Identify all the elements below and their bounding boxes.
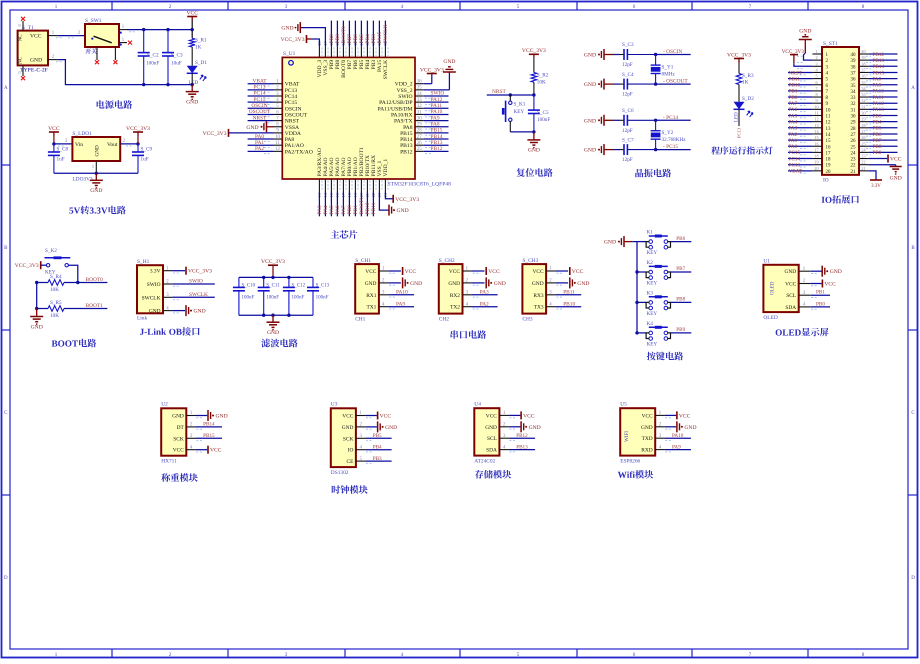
svg-text:U2: U2 xyxy=(161,402,168,408)
svg-text:PB10: PB10 xyxy=(563,301,575,307)
svg-text:PA11: PA11 xyxy=(873,95,885,101)
svg-text:GND: GND xyxy=(342,425,354,431)
svg-text:PB12: PB12 xyxy=(873,52,885,58)
svg-text:S_C5: S_C5 xyxy=(537,110,549,116)
svg-text:S_CH1: S_CH1 xyxy=(355,258,371,264)
svg-text:PB13: PB13 xyxy=(431,140,443,146)
svg-text:CH2: CH2 xyxy=(439,316,449,322)
svg-text:PA3: PA3 xyxy=(480,290,489,296)
svg-text:27: 27 xyxy=(417,135,422,140)
svg-text:11: 11 xyxy=(826,115,831,120)
svg-text:BOOT1: BOOT1 xyxy=(86,303,104,309)
svg-text:RX3: RX3 xyxy=(533,293,543,299)
svg-text:PB9: PB9 xyxy=(873,150,882,156)
svg-text:19: 19 xyxy=(814,160,818,165)
svg-text:GND: GND xyxy=(443,59,455,65)
svg-text:PB1: PB1 xyxy=(816,290,825,296)
svg-text:VCC: VCC xyxy=(824,282,836,288)
svg-text:PB13: PB13 xyxy=(873,58,885,64)
svg-text:25: 25 xyxy=(861,141,865,146)
svg-text:GND: GND xyxy=(890,176,902,182)
svg-text:S_R2: S_R2 xyxy=(537,73,549,79)
svg-text:PB14: PB14 xyxy=(203,422,215,428)
svg-text:36: 36 xyxy=(861,74,865,79)
svg-text:S_CH3: S_CH3 xyxy=(522,258,538,264)
svg-text:OLED: OLED xyxy=(771,281,776,295)
svg-text:VSSA: VSSA xyxy=(285,125,299,131)
svg-text:10K: 10K xyxy=(50,287,59,293)
svg-text:STM32F103C8T6_LQFP48: STM32F103C8T6_LQFP48 xyxy=(388,182,452,188)
svg-text:S_SW1: S_SW1 xyxy=(85,18,102,24)
svg-text:SWIO: SWIO xyxy=(147,282,161,288)
svg-text:VDD_1: VDD_1 xyxy=(383,159,389,177)
svg-text:GND: GND xyxy=(604,240,616,246)
svg-text:S_C3: S_C3 xyxy=(622,42,634,48)
svg-text:VDDA: VDDA xyxy=(285,131,301,137)
svg-text:HX711: HX711 xyxy=(161,459,177,465)
svg-text:KEY: KEY xyxy=(514,109,525,115)
svg-text:GND: GND xyxy=(194,309,206,315)
svg-text:1K: 1K xyxy=(742,80,749,86)
svg-text:A: A xyxy=(4,86,8,91)
svg-text:GND: GND xyxy=(785,269,797,275)
svg-text:SCK: SCK xyxy=(343,436,354,442)
svg-text:36: 36 xyxy=(417,80,422,85)
svg-text:- PC14: - PC14 xyxy=(663,115,678,121)
svg-text:26: 26 xyxy=(417,141,422,146)
svg-text:33: 33 xyxy=(417,98,422,103)
svg-text:NRST: NRST xyxy=(789,70,803,76)
svg-text:PA8: PA8 xyxy=(431,121,440,127)
svg-text:PB5: PB5 xyxy=(373,433,382,439)
svg-text:PB8: PB8 xyxy=(873,144,882,150)
svg-text:WIFI: WIFI xyxy=(625,431,630,442)
svg-text:S_C2: S_C2 xyxy=(147,53,159,59)
svg-text:S_CH2: S_CH2 xyxy=(439,258,455,264)
svg-text:29: 29 xyxy=(417,123,422,128)
svg-text:18: 18 xyxy=(814,154,818,159)
svg-text:13: 13 xyxy=(826,127,832,132)
svg-text:12: 12 xyxy=(814,117,818,122)
svg-text:PB15: PB15 xyxy=(873,70,885,76)
svg-text:S_C8: S_C8 xyxy=(57,147,69,153)
svg-text:Vin: Vin xyxy=(75,142,83,148)
svg-text:12: 12 xyxy=(275,147,280,152)
svg-text:RX1: RX1 xyxy=(366,293,376,299)
svg-text:VCC: VCC xyxy=(365,269,376,275)
svg-text:PB12: PB12 xyxy=(431,146,443,152)
svg-text:15: 15 xyxy=(814,135,818,140)
svg-text:D: D xyxy=(911,576,915,581)
svg-text:S_C11: S_C11 xyxy=(266,284,280,289)
svg-text:VCC: VCC xyxy=(486,413,497,419)
svg-text:SDA: SDA xyxy=(785,305,796,311)
svg-text:VCC: VCC xyxy=(48,126,60,132)
svg-text:PA4: PA4 xyxy=(789,119,798,125)
svg-text:PA7: PA7 xyxy=(789,101,798,107)
svg-text:PB5: PB5 xyxy=(873,126,882,132)
svg-text:SDA: SDA xyxy=(486,448,497,454)
svg-text:12pF: 12pF xyxy=(622,62,633,68)
svg-text:K4: K4 xyxy=(647,321,654,327)
svg-text:GND: GND xyxy=(216,414,228,420)
svg-text:PB14: PB14 xyxy=(431,134,443,140)
svg-text:PB6: PB6 xyxy=(676,236,685,242)
svg-text:PA10: PA10 xyxy=(672,433,684,439)
svg-text:GND: GND xyxy=(31,324,43,330)
svg-text:GND: GND xyxy=(830,269,842,275)
svg-text:PB12: PB12 xyxy=(400,149,413,155)
svg-text:VCC_3V3: VCC_3V3 xyxy=(15,263,39,269)
svg-text:PA8: PA8 xyxy=(285,137,295,143)
svg-text:6: 6 xyxy=(815,80,817,85)
svg-text:PC13: PC13 xyxy=(254,85,266,91)
svg-text:U5: U5 xyxy=(620,402,627,408)
svg-text:CE: CE xyxy=(347,459,355,465)
svg-text:PB7: PB7 xyxy=(873,138,882,144)
svg-text:3.3V: 3.3V xyxy=(150,269,161,275)
svg-text:PA8: PA8 xyxy=(873,76,882,82)
svg-text:31: 31 xyxy=(417,110,422,115)
svg-text:31: 31 xyxy=(851,108,857,113)
svg-text:PB13: PB13 xyxy=(516,444,528,450)
svg-text:GND: GND xyxy=(410,281,422,287)
svg-text:AT24C02: AT24C02 xyxy=(474,459,495,465)
svg-text:PC13: PC13 xyxy=(789,163,801,169)
svg-text:PA5: PA5 xyxy=(789,113,798,119)
svg-text:12pF: 12pF xyxy=(622,128,633,134)
svg-text:30: 30 xyxy=(417,116,422,121)
svg-text:DS1302: DS1302 xyxy=(331,470,349,476)
svg-text:PB9: PB9 xyxy=(676,327,685,333)
svg-text:25: 25 xyxy=(851,145,857,150)
svg-text:S_ST1: S_ST1 xyxy=(823,41,838,47)
svg-text:PB11: PB11 xyxy=(563,290,575,296)
svg-text:20: 20 xyxy=(814,166,818,171)
svg-text:22: 22 xyxy=(851,164,857,169)
svg-text:39: 39 xyxy=(861,55,865,60)
svg-text:7: 7 xyxy=(815,86,817,91)
svg-text:GND: GND xyxy=(90,188,102,194)
svg-text:PB0: PB0 xyxy=(816,301,825,307)
svg-text:PB3: PB3 xyxy=(373,456,382,462)
svg-text:S_R4: S_R4 xyxy=(50,274,62,280)
svg-text:PA9/TX: PA9/TX xyxy=(394,119,412,125)
svg-text:PA9: PA9 xyxy=(396,301,405,307)
svg-text:NRST: NRST xyxy=(492,89,506,95)
svg-text:GND: GND xyxy=(529,425,541,431)
svg-text:VCC_3V3: VCC_3V3 xyxy=(188,269,212,275)
svg-text:1uF: 1uF xyxy=(141,157,149,163)
svg-text:28: 28 xyxy=(861,123,865,128)
svg-text:S_D2: S_D2 xyxy=(742,96,754,102)
svg-text:GND: GND xyxy=(246,125,258,131)
svg-text:VCC: VCC xyxy=(173,448,184,454)
svg-text:U3: U3 xyxy=(331,402,338,408)
svg-text:PA10: PA10 xyxy=(431,109,443,115)
svg-text:TX3: TX3 xyxy=(534,305,544,311)
svg-text:GND: GND xyxy=(584,82,596,88)
svg-text:38: 38 xyxy=(851,65,857,70)
svg-text:VCC_3V3: VCC_3V3 xyxy=(522,48,546,54)
svg-text:11: 11 xyxy=(275,141,280,146)
svg-text:S_C10: S_C10 xyxy=(242,284,256,289)
svg-text:RXD: RXD xyxy=(641,448,652,454)
svg-text:28: 28 xyxy=(417,129,422,134)
svg-text:PA1: PA1 xyxy=(789,138,798,144)
svg-text:PB15: PB15 xyxy=(203,433,215,439)
svg-text:SWIO: SWIO xyxy=(431,91,445,97)
svg-text:28: 28 xyxy=(851,127,857,132)
svg-text:CH1: CH1 xyxy=(355,316,365,322)
svg-text:PB1: PB1 xyxy=(789,89,798,95)
svg-text:SWIO: SWIO xyxy=(398,94,412,100)
svg-text:21: 21 xyxy=(861,166,865,171)
svg-text:23: 23 xyxy=(861,154,865,159)
svg-text:VBAT: VBAT xyxy=(789,169,803,175)
svg-text:- OSCIN: - OSCIN xyxy=(663,49,682,55)
svg-text:19: 19 xyxy=(826,164,832,169)
svg-text:33: 33 xyxy=(861,92,865,97)
svg-text:GND: GND xyxy=(577,281,589,287)
svg-text:GND: GND xyxy=(584,148,596,154)
svg-text:PA2/TX/AO: PA2/TX/AO xyxy=(285,149,313,155)
svg-text:S_LDO1: S_LDO1 xyxy=(72,131,92,137)
svg-text:GND: GND xyxy=(172,414,184,420)
svg-text:33: 33 xyxy=(851,96,857,101)
svg-text:PA10: PA10 xyxy=(396,290,408,296)
svg-text:30: 30 xyxy=(851,115,857,120)
svg-text:1K: 1K xyxy=(195,45,202,51)
svg-text:24: 24 xyxy=(851,151,857,156)
svg-text:1uF: 1uF xyxy=(57,157,65,163)
svg-text:35: 35 xyxy=(851,84,857,89)
svg-text:PA12: PA12 xyxy=(873,101,885,107)
svg-text:S_C6: S_C6 xyxy=(622,108,634,114)
svg-text:8MHz: 8MHz xyxy=(662,72,676,78)
svg-text:Link: Link xyxy=(137,316,147,322)
svg-text:40: 40 xyxy=(861,49,865,54)
svg-text:VCC: VCC xyxy=(30,34,42,40)
svg-text:OSCOUT: OSCOUT xyxy=(249,109,271,115)
svg-text:VCC: VCC xyxy=(342,414,353,420)
svg-text:TX1: TX1 xyxy=(367,305,377,311)
svg-text:100nF: 100nF xyxy=(146,61,159,67)
svg-text:100nF: 100nF xyxy=(266,296,279,301)
svg-text:GND: GND xyxy=(684,425,696,431)
svg-text:GND: GND xyxy=(95,145,101,156)
svg-text:NC: NC xyxy=(18,34,24,42)
svg-text:35: 35 xyxy=(861,80,865,85)
svg-text:PA6: PA6 xyxy=(789,107,798,113)
svg-text:10K: 10K xyxy=(50,313,59,319)
svg-text:OLED: OLED xyxy=(763,315,777,321)
svg-text:VCC: VCC xyxy=(533,269,544,275)
svg-text:VCC: VCC xyxy=(186,10,198,16)
svg-text:S_R5: S_R5 xyxy=(50,300,62,306)
svg-text:S_R3: S_R3 xyxy=(742,73,754,79)
svg-text:SCL: SCL xyxy=(786,293,796,299)
svg-text:GND: GND xyxy=(528,148,540,154)
svg-text:5: 5 xyxy=(815,74,817,79)
svg-text:VCC: VCC xyxy=(449,269,460,275)
svg-text:PA1: PA1 xyxy=(255,140,264,146)
svg-text:NC: NC xyxy=(18,56,24,64)
svg-text:S_C3: S_C3 xyxy=(171,53,183,59)
svg-text:16: 16 xyxy=(814,141,818,146)
svg-text:PB15: PB15 xyxy=(431,128,443,134)
svg-text:K2: K2 xyxy=(647,260,654,266)
svg-text:SWIO: SWIO xyxy=(189,279,203,285)
svg-text:PB13: PB13 xyxy=(400,143,413,149)
svg-text:S_R1: S_R1 xyxy=(195,38,207,44)
svg-text:GND: GND xyxy=(267,330,279,336)
svg-text:15: 15 xyxy=(826,139,832,144)
svg-text:S_K2: S_K2 xyxy=(45,248,57,254)
svg-text:PA9: PA9 xyxy=(431,115,440,121)
svg-text:18: 18 xyxy=(826,158,832,163)
svg-text:35: 35 xyxy=(417,86,422,91)
svg-text:12: 12 xyxy=(826,121,832,126)
svg-text:VCC: VCC xyxy=(405,269,417,275)
svg-text:U1: U1 xyxy=(763,259,770,265)
svg-text:PA9: PA9 xyxy=(873,83,882,89)
svg-text:10: 10 xyxy=(826,108,832,113)
svg-text:PB12: PB12 xyxy=(516,433,528,439)
svg-text:S_C4: S_C4 xyxy=(622,72,634,78)
svg-text:PA0: PA0 xyxy=(789,144,798,150)
svg-text:PC13: PC13 xyxy=(285,88,298,94)
svg-text:30: 30 xyxy=(861,111,865,116)
svg-text:GND: GND xyxy=(186,99,198,105)
svg-text:VCC: VCC xyxy=(380,414,392,420)
svg-text:26: 26 xyxy=(861,135,865,140)
svg-text:PA1/AO: PA1/AO xyxy=(285,143,304,149)
svg-text:RX2: RX2 xyxy=(450,293,460,299)
svg-text:37: 37 xyxy=(861,67,865,72)
svg-text:PC15: PC15 xyxy=(285,100,298,106)
svg-text:- PC15: - PC15 xyxy=(663,144,678,150)
svg-text:SWCLK: SWCLK xyxy=(383,60,389,80)
svg-text:12pF: 12pF xyxy=(622,92,633,98)
svg-text:VDD_2: VDD_2 xyxy=(395,82,413,88)
svg-text:21: 21 xyxy=(851,170,857,175)
svg-text:PB8: PB8 xyxy=(676,297,685,303)
svg-text:11: 11 xyxy=(814,111,818,116)
svg-text:10uF: 10uF xyxy=(171,61,182,67)
svg-text:25: 25 xyxy=(417,147,422,152)
svg-text:K1: K1 xyxy=(647,230,654,236)
svg-text:VCC: VCC xyxy=(572,269,584,275)
svg-text:OSCIN: OSCIN xyxy=(285,106,302,112)
svg-text:PA3: PA3 xyxy=(789,126,798,132)
svg-text:GND: GND xyxy=(584,53,596,59)
svg-text:S_K1: S_K1 xyxy=(514,102,526,108)
svg-text:26: 26 xyxy=(851,139,857,144)
svg-text:VCC: VCC xyxy=(785,282,796,288)
svg-text:PC15: PC15 xyxy=(789,150,801,156)
svg-text:PA8: PA8 xyxy=(403,125,413,131)
svg-text:GND: GND xyxy=(149,309,161,315)
svg-text:TXD: TXD xyxy=(642,436,653,442)
svg-text:38: 38 xyxy=(861,61,865,66)
svg-text:PB6: PB6 xyxy=(873,132,882,138)
svg-text:VSS_2: VSS_2 xyxy=(397,88,413,94)
svg-text:PB15: PB15 xyxy=(400,131,413,137)
svg-text:OSCOUT: OSCOUT xyxy=(285,112,308,118)
svg-text:VCC: VCC xyxy=(488,269,500,275)
svg-text:100nF: 100nF xyxy=(316,296,329,301)
svg-text:GND: GND xyxy=(532,281,544,287)
svg-text:PA2: PA2 xyxy=(255,146,264,152)
svg-text:SCL: SCL xyxy=(487,436,497,442)
svg-text:PC14: PC14 xyxy=(789,156,801,162)
svg-text:20: 20 xyxy=(826,170,832,175)
svg-text:S_Y2: S_Y2 xyxy=(662,130,674,136)
svg-text:23: 23 xyxy=(851,158,857,163)
svg-text:S_U1: S_U1 xyxy=(283,51,296,57)
svg-text:KEY: KEY xyxy=(647,311,658,317)
svg-text:PA11/USB/DM: PA11/USB/DM xyxy=(377,106,412,112)
svg-text:22: 22 xyxy=(861,160,865,165)
svg-text:S_Y1: S_Y1 xyxy=(662,65,674,71)
svg-text:BOOT0: BOOT0 xyxy=(86,277,104,283)
svg-text:PA10/RX: PA10/RX xyxy=(391,112,413,118)
svg-text:17: 17 xyxy=(814,147,818,152)
svg-text:K3: K3 xyxy=(647,290,654,296)
svg-text:34: 34 xyxy=(417,92,422,97)
svg-text:GND: GND xyxy=(641,425,653,431)
svg-text:36: 36 xyxy=(851,78,857,83)
svg-text:S_D1: S_D1 xyxy=(195,60,207,66)
svg-text:29: 29 xyxy=(851,121,857,126)
svg-text:2: 2 xyxy=(815,55,817,60)
svg-text:CH3: CH3 xyxy=(522,316,532,322)
svg-text:A: A xyxy=(911,86,915,91)
svg-text:U4: U4 xyxy=(474,402,481,408)
svg-text:3.3V: 3.3V xyxy=(871,184,881,189)
svg-text:10K: 10K xyxy=(537,80,546,86)
svg-text:12pF: 12pF xyxy=(622,157,633,163)
svg-text:100nF: 100nF xyxy=(537,117,550,123)
svg-text:SWCLK: SWCLK xyxy=(383,25,389,44)
svg-text:PA12: PA12 xyxy=(431,97,443,103)
svg-text:KEY: KEY xyxy=(647,280,658,286)
svg-text:39: 39 xyxy=(851,59,857,64)
svg-text:S_H1: S_H1 xyxy=(137,259,150,265)
svg-text:GND: GND xyxy=(385,425,397,431)
svg-text:VCC_3V3: VCC_3V3 xyxy=(203,131,227,137)
svg-text:VCC_3V3: VCC_3V3 xyxy=(727,52,751,58)
svg-text:IO: IO xyxy=(823,177,829,183)
svg-text:PA0: PA0 xyxy=(255,134,264,140)
svg-text:IO: IO xyxy=(348,448,354,454)
svg-text:29: 29 xyxy=(861,117,865,122)
svg-text:VCC: VCC xyxy=(523,413,535,419)
svg-text:D: D xyxy=(4,576,8,581)
svg-text:S_C12: S_C12 xyxy=(292,284,306,289)
svg-text:SWCLK: SWCLK xyxy=(142,295,161,301)
svg-text:VCC: VCC xyxy=(210,448,222,454)
svg-text:PA2: PA2 xyxy=(789,132,798,138)
svg-text:KEY: KEY xyxy=(647,341,658,347)
svg-text:PC14: PC14 xyxy=(285,94,298,100)
svg-text:VCC: VCC xyxy=(890,157,902,163)
svg-text:PB4: PB4 xyxy=(873,119,882,125)
svg-text:VCC: VCC xyxy=(642,413,653,419)
svg-text:100nF: 100nF xyxy=(242,296,255,301)
svg-text:1: 1 xyxy=(815,49,817,54)
